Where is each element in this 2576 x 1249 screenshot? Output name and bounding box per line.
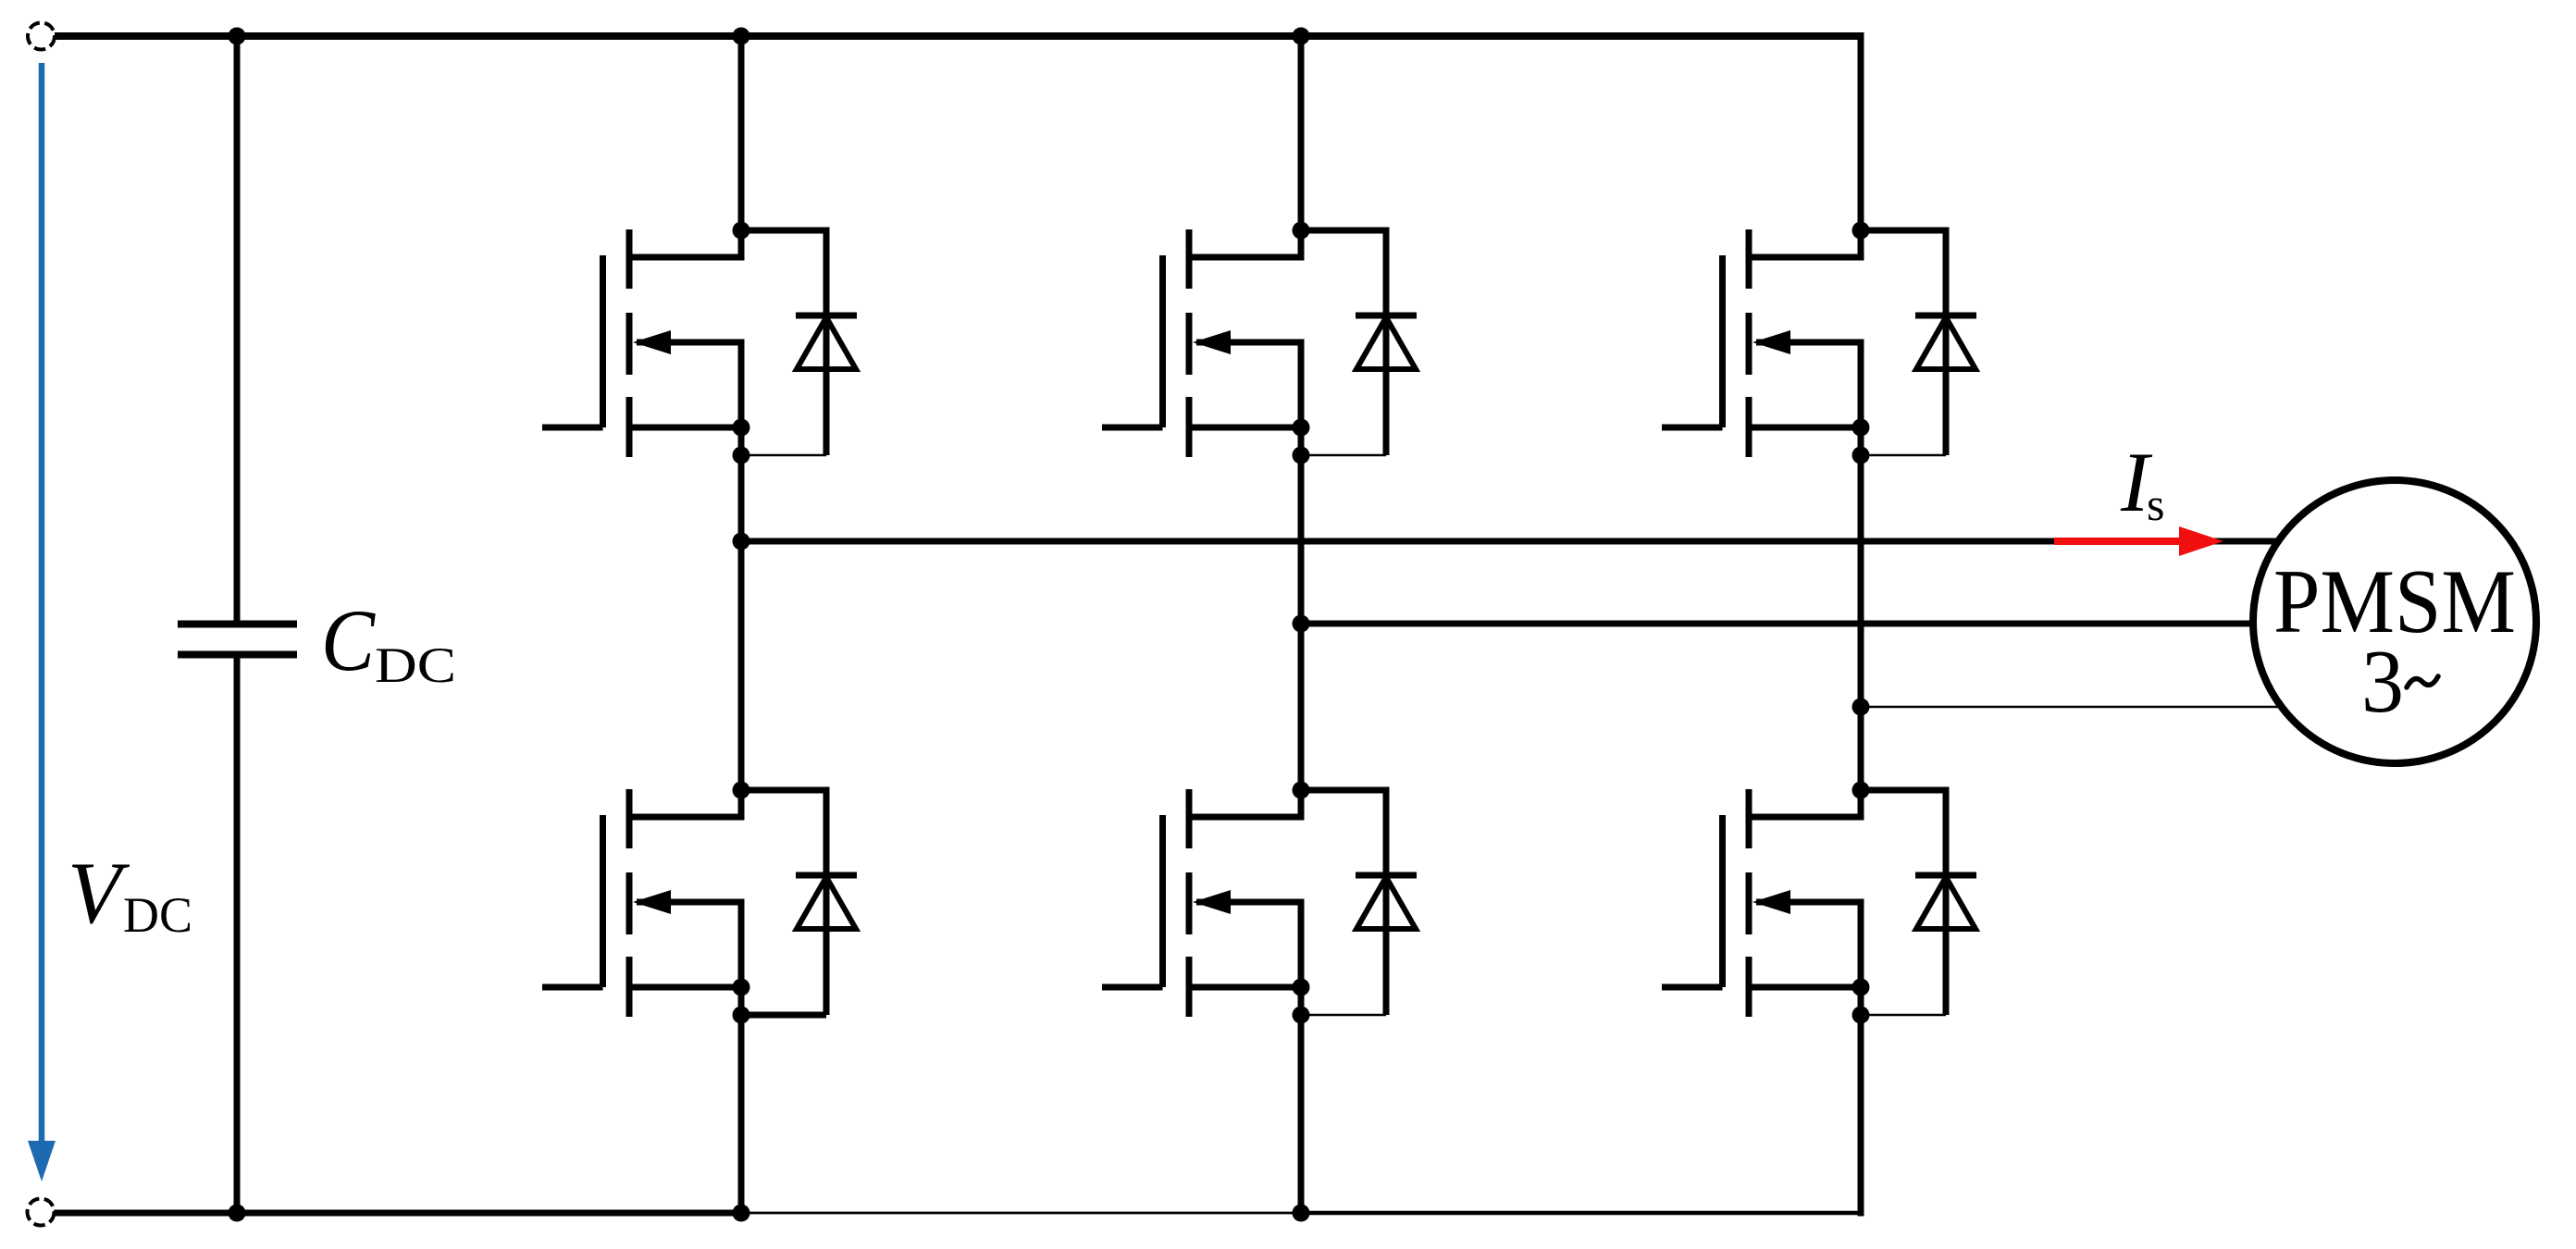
svg-text:V: V <box>68 844 130 942</box>
svg-text:C: C <box>321 591 376 689</box>
svg-text:DC: DC <box>123 887 192 943</box>
svg-text:s: s <box>2147 478 2164 530</box>
svg-text:DC: DC <box>375 637 456 693</box>
svg-text:3: 3 <box>2361 632 2404 732</box>
